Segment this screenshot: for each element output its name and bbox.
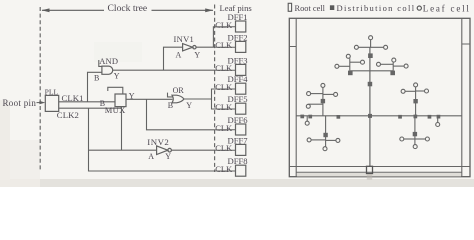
distribution taps on mid line left (300, 115, 340, 119)
leaf cell bottom-right south (413, 145, 417, 149)
distribution cell at trunk/mid-line junction (368, 114, 372, 118)
and-gate AND (102, 66, 113, 74)
svg-text:CLK: CLK (215, 102, 233, 112)
svg-text:PLL: PLL (45, 87, 59, 96)
leaf cell U3 top (392, 58, 396, 62)
wire INV2 Y to CLK7 (171, 149, 215, 151)
svg-text:Leaf cell: Leaf cell (423, 4, 471, 14)
leaf cell bottom-left south (323, 147, 327, 151)
svg-text:Y: Y (186, 101, 192, 110)
root boundary dashed line (39, 7, 41, 172)
wire CLK1 to AND B (88, 72, 102, 102)
svg-text:CLK: CLK (215, 40, 233, 50)
svg-text:CLK2: CLK2 (57, 110, 79, 120)
svg-text:MUX: MUX (105, 105, 126, 115)
U2 stem and arms (339, 58, 361, 70)
wire MUX Y to OR B (126, 98, 172, 100)
svg-text:CLK: CLK (215, 143, 233, 153)
clock tree span arrow (42, 8, 214, 12)
distribution taps on mid line right (398, 115, 440, 119)
wire CLK1 net (59, 101, 115, 103)
leaf cell U1 right (384, 45, 388, 49)
leaf cell U1 left (354, 45, 358, 49)
mid-left cluster stem (308, 87, 333, 115)
svg-text:INV1: INV1 (174, 34, 195, 44)
wire OR A hook (168, 93, 173, 97)
floorplan mid row line (296, 115, 462, 117)
svg-text:Clock tree: Clock tree (108, 3, 148, 14)
svg-text:Y: Y (114, 71, 120, 80)
svg-text:A: A (148, 152, 154, 161)
wire INV1 Y to CLK2 pin and bus (196, 46, 216, 48)
distribution cell mid-right (413, 99, 417, 103)
svg-text:A: A (176, 50, 182, 59)
legend distribution cell icon (330, 5, 334, 10)
svg-text:CLK: CLK (215, 123, 233, 133)
distribution cell U2 (348, 71, 353, 76)
flip-flop DFF2 (215, 32, 247, 52)
leaf cell U2 right (361, 60, 365, 64)
svg-text:Distribution coll: Distribution coll (337, 3, 416, 13)
wire INV2 input net (89, 149, 157, 151)
flip-flop DFF4 (215, 74, 248, 94)
svg-text:CLK1: CLK1 (62, 93, 84, 103)
root cell (367, 166, 373, 173)
distribution cell U1 (368, 53, 373, 58)
leaf cell below line right (436, 116, 440, 127)
svg-text:Y: Y (194, 50, 200, 59)
floorplan right rail (461, 18, 463, 176)
inverter INV1 (183, 44, 196, 51)
wire CLK2 net (59, 107, 122, 109)
leaf cell U2 top (346, 54, 350, 58)
flip-flop DFF7 (215, 135, 248, 155)
leaf cell bottom-right west (400, 137, 404, 141)
flip-flop DFF3 (215, 55, 247, 75)
flip-flop DFF6 (215, 115, 248, 135)
inverter INV2 (157, 146, 172, 155)
distribution cell on trunk (jog) (368, 82, 373, 87)
flip-flop DFF8 (215, 156, 247, 176)
svg-text:CLK: CLK (215, 82, 233, 92)
svg-text:Root cell: Root cell (295, 4, 326, 13)
wire bus rows 1-2 (213, 27, 215, 47)
leaf cell mid-left west (307, 92, 311, 96)
legend root cell icon (288, 3, 291, 11)
floorplan bottom inner line (296, 171, 462, 173)
distribution cell mid-left (321, 99, 325, 103)
bottom strip smudge (297, 173, 461, 176)
U1 arms (358, 46, 384, 48)
bottom-right cluster stem (404, 116, 426, 145)
wire AND A hook (99, 60, 102, 66)
svg-text:OR: OR (173, 86, 185, 95)
clock trunk (369, 47, 371, 166)
wire CLK2 far leg to CLK8 (89, 108, 216, 171)
leaf boundary dashed line (214, 5, 216, 173)
wire bus rows 4-5 (212, 89, 216, 109)
svg-text:CLK: CLK (215, 20, 233, 30)
U3 stem and arms (380, 62, 404, 71)
svg-text:B: B (168, 101, 173, 110)
or-gate OR (172, 95, 184, 103)
paper background tint (0, 0, 474, 187)
distribution cell bottom-right (413, 132, 417, 136)
svg-text:INV2: INV2 (147, 137, 169, 147)
svg-text:CLK: CLK (215, 63, 233, 73)
top cluster branch (350, 70, 393, 72)
root pin arrow into PLL (37, 101, 46, 104)
leaf cell mid-right west (401, 89, 405, 93)
leaf cell U1 top (369, 36, 373, 48)
svg-text:B: B (94, 74, 99, 83)
leaf cell U3 left (377, 62, 381, 66)
bottom-left cluster stem (311, 116, 336, 147)
svg-text:Y: Y (165, 152, 171, 161)
mux MUX1 (115, 94, 126, 107)
leaf cell mid-left lower (306, 104, 310, 108)
wire AND Y to INV1 A (164, 47, 183, 70)
leaf cell U2 left (335, 64, 339, 68)
leaf cell mid-right top (414, 83, 418, 87)
leaf cell bottom-left east (336, 138, 340, 142)
PLL U0 (45, 95, 58, 111)
leaf cell below line left (305, 116, 309, 125)
leaf cell mid-left top (321, 83, 325, 87)
svg-text:CLK: CLK (215, 164, 233, 174)
leaf cell U3 right (404, 64, 408, 68)
wire AND Y to CLK3 (113, 69, 216, 71)
leaf cell bottom-right east (425, 137, 429, 141)
leaf cell mid-right east (425, 89, 429, 93)
wire CLK2 down leg to INV2 A (121, 107, 123, 151)
distribution cell bottom-left (323, 133, 327, 137)
root cell shadow mark (367, 174, 372, 180)
flip-flop DFF5 (215, 94, 247, 114)
left rail tick (289, 46, 296, 48)
floorplan outer boundary (289, 18, 470, 176)
wire CLK pin underlines into DFF boxes (216, 27, 236, 171)
leaf cell bottom-left west (307, 138, 311, 142)
svg-text:AND: AND (99, 56, 118, 66)
right rail tick (462, 43, 470, 45)
mid-right cluster stem (405, 87, 425, 116)
floorplan bottom row line (289, 166, 470, 168)
wire OR Y to bus rows 4-5 (184, 98, 212, 100)
flip-flop DFF1 (215, 12, 247, 32)
wire MUX select bracket (108, 87, 123, 94)
leaf cell mid-left east (334, 92, 338, 96)
svg-text:Root pin: Root pin (3, 98, 37, 108)
wire MUX branch down to CLK6 (147, 99, 216, 130)
distribution cell U3 (390, 71, 395, 76)
legend leaf cell icon (417, 6, 421, 10)
floorplan left rail (295, 18, 297, 176)
